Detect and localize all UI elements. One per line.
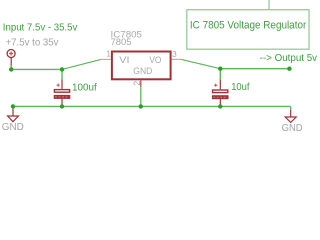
svg-text:IC 7805 Voltage Regulator: IC 7805 Voltage Regulator: [190, 19, 307, 31]
svg-text:GND: GND: [133, 66, 152, 77]
svg-text:--> Output 5v: --> Output 5v: [260, 52, 318, 64]
svg-text:GND: GND: [2, 121, 24, 133]
svg-text:Input 7.5v - 35.5v: Input 7.5v - 35.5v: [3, 21, 78, 33]
svg-text:3: 3: [172, 49, 177, 59]
svg-text:GND: GND: [282, 122, 303, 134]
svg-text:VI: VI: [119, 55, 129, 66]
svg-text:100uf: 100uf: [72, 82, 97, 94]
svg-text:1: 1: [106, 49, 111, 59]
svg-text:VO: VO: [149, 55, 161, 66]
svg-text:+7.5v to 35v: +7.5v to 35v: [6, 36, 60, 48]
svg-text:7805: 7805: [111, 37, 132, 48]
svg-text:10uf: 10uf: [231, 81, 249, 93]
